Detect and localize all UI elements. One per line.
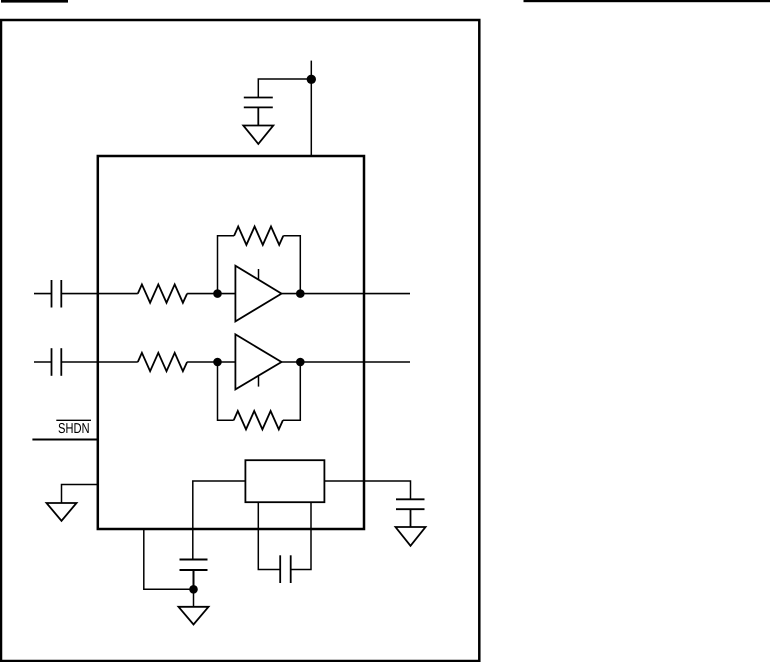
node OUT2 — [296, 358, 305, 367]
ground (GND pin) — [47, 503, 77, 521]
capacitor C2 VDD bypass — [244, 98, 273, 126]
logo bar (top-left, cropped) — [1, 0, 68, 3]
ground (C6) — [396, 527, 426, 546]
node U1A inverting input — [213, 289, 222, 298]
wire feedback left U1A — [218, 236, 235, 294]
node VDD junction — [307, 75, 316, 84]
capacitor C5 reservoir — [180, 560, 208, 590]
wire feedback right U1A — [283, 236, 300, 294]
wire pin C1P — [258, 502, 280, 570]
wire C3 to R1 — [61, 293, 138, 295]
wire R1 to node — [187, 293, 235, 295]
capacitor C4 IN2 coupling — [52, 348, 62, 376]
node OUT1 — [296, 289, 305, 298]
wire VDD to bypass cap — [258, 79, 311, 98]
wire charge pump right to C6 — [324, 481, 410, 499]
capacitor C1 flying — [280, 555, 291, 583]
SHDN label — [56, 420, 91, 433]
wire R3 to node — [187, 361, 235, 363]
wire feedback right U1B — [283, 362, 300, 420]
wire charge pump left to C5 — [193, 481, 246, 560]
op-amp U1B — [235, 334, 281, 389]
wire pin C1N — [291, 502, 311, 570]
wire C4 to R3 — [61, 361, 138, 363]
resistor R2 feedback U1A — [234, 227, 283, 245]
wire OUT1 — [282, 293, 411, 295]
wire IN2 — [34, 361, 52, 363]
wire VDD stub — [310, 61, 312, 156]
ground (C5) — [179, 607, 209, 625]
wire feedback left U1B — [218, 362, 234, 420]
wire node to ground — [193, 589, 195, 607]
resistor R1 IN1 series — [138, 284, 187, 302]
node C5 ground junction — [189, 585, 198, 594]
capacitor C3 IN1 coupling — [52, 280, 62, 308]
charge pump block — [245, 460, 324, 502]
node U1B inverting input — [213, 358, 222, 367]
wire SHDN pin — [32, 439, 97, 441]
wire PGND L-shape — [144, 529, 194, 589]
resistor R4 feedback U1B — [234, 411, 283, 429]
figure frame — [1, 20, 479, 661]
wire OUT2 — [282, 361, 411, 363]
resistor R3 IN2 series — [138, 353, 187, 371]
header rule (top-right, cropped) — [524, 0, 770, 2]
wire IN1 — [34, 293, 52, 295]
ground (VDD bypass) — [243, 126, 273, 144]
wire GND pin — [62, 485, 98, 504]
op-amp U1A — [235, 266, 281, 322]
capacitor C6 PVSS — [396, 499, 425, 527]
IC outline U1 — [98, 156, 364, 529]
